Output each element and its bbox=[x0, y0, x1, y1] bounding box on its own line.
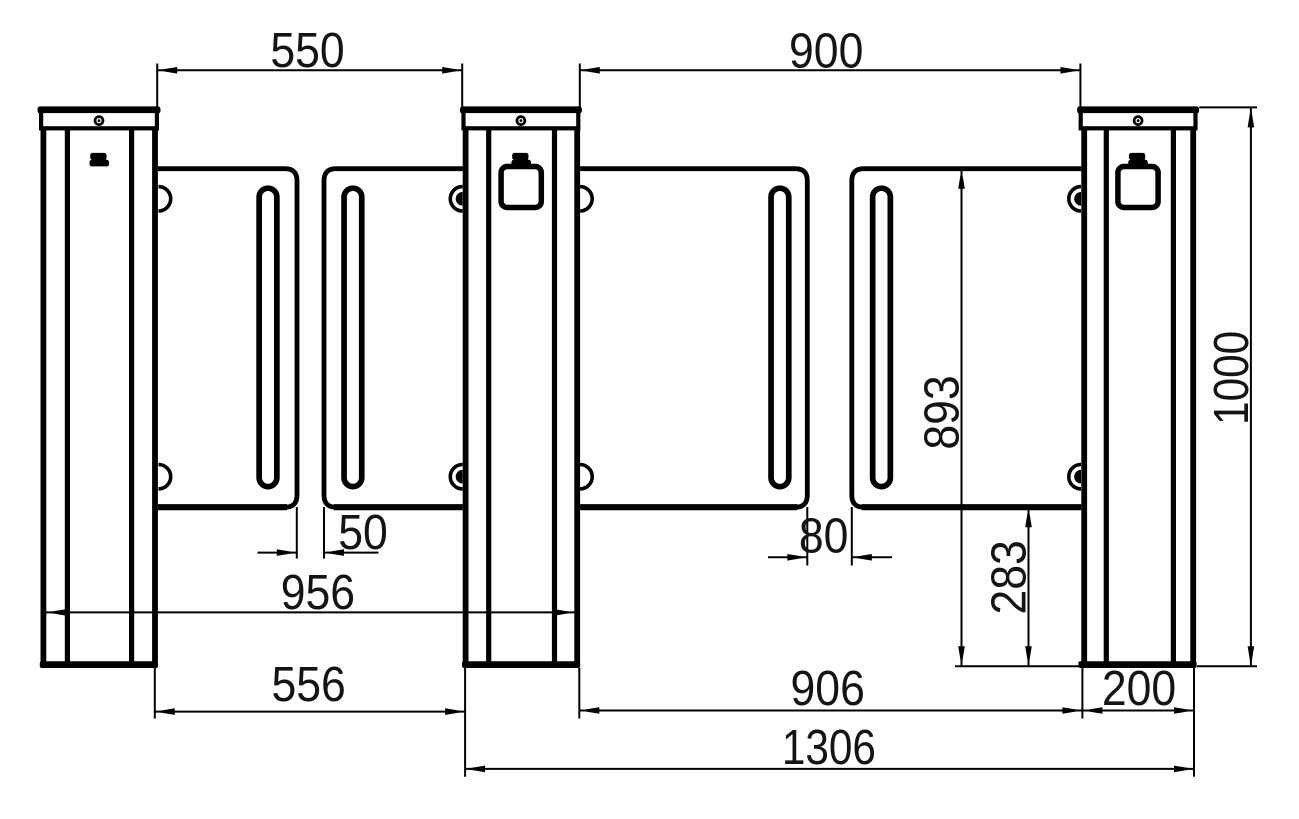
dim 556: dimension line with arrows bbox=[155, 711, 465, 713]
dim 1306: dimension line with arrows bbox=[465, 768, 1194, 770]
slot cutout in leaf A2 bbox=[344, 188, 362, 486]
svg-text:200: 200 bbox=[1102, 660, 1176, 716]
dim 200: extension line bbox=[1193, 668, 1195, 777]
dim 900: extension lines bbox=[579, 64, 581, 108]
middle pillar: cap band bbox=[464, 111, 579, 128]
dim 556: extension lines bbox=[154, 668, 156, 719]
dim 1000: dimension line with arrows bbox=[1250, 107, 1252, 666]
slot cutout in leaf B2 bbox=[873, 188, 891, 486]
right pillar: card-swipe icon bbox=[1129, 153, 1145, 160]
dim 50: dimension lines with arrows bbox=[258, 552, 297, 554]
middle pillar: base plate bbox=[462, 661, 580, 668]
hinge bottom, left pillar right face bbox=[159, 464, 171, 488]
svg-text:80: 80 bbox=[799, 507, 849, 563]
left pillar: top cap bar bbox=[38, 106, 161, 113]
hinge bottom, middle pillar right face bbox=[580, 464, 592, 488]
slot cutout in leaf A1 bbox=[259, 188, 277, 486]
pivot hinge top, middle pillar left face bbox=[450, 187, 462, 211]
svg-text:956: 956 bbox=[281, 564, 355, 620]
svg-text:283: 283 bbox=[980, 540, 1036, 614]
right pillar: base plate bbox=[1078, 661, 1196, 668]
glass leaf B1 (lane 2, attached to middle pillar) bbox=[572, 169, 807, 508]
hinge top, left pillar right face bbox=[159, 187, 171, 211]
svg-text:900: 900 bbox=[789, 22, 863, 78]
glass leaf A2 (lane 1, attached to middle pillar) bbox=[324, 169, 470, 508]
svg-text:893: 893 bbox=[913, 375, 969, 449]
dim 956: dimension line with arrows bbox=[45, 611, 578, 613]
dim 80: dimension lines with arrows bbox=[768, 556, 807, 558]
middle pillar: card-swipe icon bbox=[512, 153, 528, 160]
right pillar: body outer walls and inner panel lines bbox=[1081, 130, 1087, 662]
svg-text:906: 906 bbox=[791, 660, 865, 716]
right pillar: body fill bbox=[1081, 130, 1196, 665]
left pillar: base plate bbox=[40, 661, 158, 668]
dim 550: extension lines bbox=[156, 64, 158, 108]
left pillar: cap band bbox=[41, 111, 157, 128]
middle pillar: body fill bbox=[463, 130, 580, 665]
pivot hinge bottom, middle pillar left face bbox=[450, 464, 462, 488]
glass leaf B2 (lane 2, attached to right pillar) bbox=[852, 169, 1090, 508]
dim 893: dimension line with arrows bbox=[961, 169, 963, 667]
right pillar: top cap bar bbox=[1077, 106, 1199, 113]
svg-text:1000: 1000 bbox=[1203, 331, 1259, 425]
svg-text:556: 556 bbox=[271, 656, 345, 712]
pivot hinge bottom, right pillar left face bbox=[1069, 464, 1081, 488]
left pillar: card-swipe icon bbox=[90, 153, 106, 160]
glass leaf A1 (lane 1, attached to left pillar) bbox=[150, 169, 297, 508]
right pillar: card reader window bbox=[1118, 167, 1158, 208]
dim 906: extension lines bbox=[578, 668, 580, 719]
middle pillar: top cap bar bbox=[460, 106, 582, 113]
ground extension line (left of right pillar) bbox=[955, 665, 1085, 667]
middle pillar: card reader window bbox=[501, 167, 541, 208]
left pillar: body outer walls and inner panel lines bbox=[41, 130, 47, 662]
middle pillar: body outer walls and inner panel lines bbox=[463, 130, 469, 662]
dim 1000: extension lines bbox=[1199, 106, 1257, 108]
dim 906: dimension line with arrows bbox=[579, 710, 1082, 712]
middle pillar: cap screw bbox=[517, 117, 525, 125]
hinge top, middle pillar right face bbox=[580, 187, 592, 211]
left pillar: body fill bbox=[41, 130, 158, 665]
svg-text:550: 550 bbox=[270, 22, 344, 78]
svg-text:50: 50 bbox=[338, 504, 388, 560]
dim 50: extension lines bbox=[296, 507, 298, 559]
left pillar: cap screw bbox=[95, 117, 103, 125]
right pillar: cap band bbox=[1081, 111, 1196, 128]
dim 200: dimension line with arrows bbox=[1082, 710, 1194, 712]
dim 900: dimension line with arrows bbox=[580, 69, 1081, 71]
dim 283: dimension line with arrows bbox=[1028, 507, 1030, 666]
dim 80: extension lines bbox=[806, 507, 808, 566]
dim 550: dimension line with arrows bbox=[157, 69, 462, 71]
slot cutout in leaf B1 bbox=[771, 188, 789, 486]
pivot hinge top, right pillar left face bbox=[1069, 187, 1081, 211]
right pillar: cap screw bbox=[1134, 117, 1142, 125]
svg-text:1306: 1306 bbox=[782, 719, 876, 775]
